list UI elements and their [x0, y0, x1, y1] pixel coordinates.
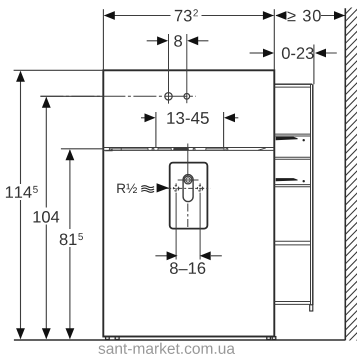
superscript 5 of 81: [78, 233, 83, 240]
dim 13-45: [141, 117, 146, 119]
fixing bolt circles: [165, 93, 172, 100]
arrowhead 81.5 down: [66, 328, 75, 339]
arrowhead 13-45 right: [224, 113, 235, 122]
arrowhead 73^2 left: [104, 11, 115, 20]
arrowhead 114.5 down: [16, 328, 25, 339]
dim text 114: [6, 186, 32, 197]
arrowhead 8 right: [187, 36, 198, 45]
arrowhead 8-16 left: [167, 251, 178, 260]
dim 73^2 lines: [105, 15, 171, 17]
box screw circle: [184, 176, 192, 184]
arrowhead 81.5 up: [66, 149, 75, 160]
wall hatching: [345, 1, 357, 352]
dim text 8-16: [170, 262, 205, 274]
dim text >= 30: [288, 10, 321, 22]
arrow to box: [157, 183, 169, 192]
superscript 5: [33, 186, 38, 193]
horizontal extension lines left: [14, 69, 104, 71]
panel feet: [106, 337, 276, 340]
arrowhead 114.5 up: [16, 71, 25, 82]
side view: rear verticals: [310, 84, 312, 304]
box vertical slot: [183, 175, 193, 202]
mounting rail (front view): [103, 148, 274, 151]
side view rear foot: [310, 305, 313, 311]
floor line: [14, 339, 345, 341]
dim 8: [147, 40, 158, 42]
vertical dims: [20, 72, 22, 185]
front panel: [103, 70, 274, 336]
vertical centre axis: [187, 144, 189, 177]
dim text 73: [175, 10, 192, 22]
dim 0-23: [250, 52, 264, 54]
dim >=30 lines: [276, 15, 287, 17]
wall face line: [344, 8, 346, 340]
arrowhead 0-23 left: [263, 49, 274, 58]
arrowhead >=30 right: [334, 11, 345, 20]
watermark sant-market.com.ua: [98, 343, 235, 354]
side view bracket A: [276, 137, 298, 140]
dashed supply circles: [173, 186, 178, 191]
arrowhead >=30 left: [275, 11, 286, 20]
rail slots and details: [104, 148, 265, 152]
wave symbol: [141, 186, 154, 193]
arrowhead 13-45 left: [145, 113, 156, 122]
supply pipe extension lines down to 8-16: [175, 193, 177, 260]
dim 73^2 extension lines: [102, 9, 104, 70]
arrowhead 73^2 right: [263, 11, 274, 20]
horizontal centre line through supply circles: [166, 187, 210, 189]
function box: [170, 163, 208, 229]
side view: top cap: [274, 83, 312, 85]
arrowhead 104 down: [42, 328, 51, 339]
superscript 2: [193, 9, 198, 16]
arrowhead 8-16 right: [200, 251, 211, 260]
arrowhead 104 up: [42, 97, 51, 108]
dim text 13-45: [167, 112, 209, 124]
dim text 104: [34, 211, 60, 223]
dim text 0-23: [282, 47, 314, 59]
arrowhead 0-23 right: [315, 49, 326, 58]
dim text 81: [60, 234, 77, 246]
side view bracket B: [276, 178, 298, 181]
label R1/2: [117, 184, 137, 193]
centre line through circles: [40, 95, 196, 97]
dim 8-16: [155, 255, 167, 257]
crosshair of screw: [178, 179, 199, 181]
arrowhead 8 left: [157, 36, 168, 45]
dim text 8: [174, 35, 182, 47]
extension lines of dim 8 (through circles): [168, 34, 170, 104]
side view rails: [274, 134, 310, 304]
